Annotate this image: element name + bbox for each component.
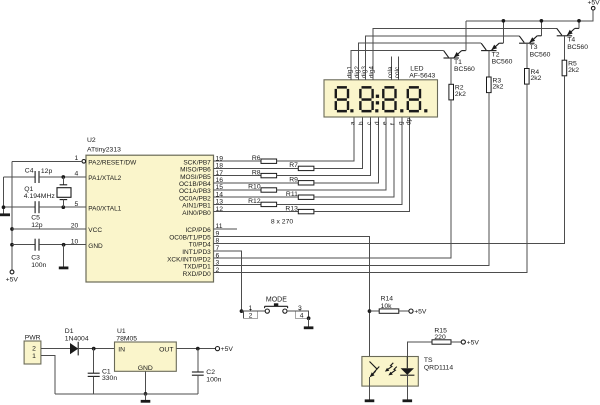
svg-text:R14: R14 — [381, 295, 394, 302]
IC U2 pin 11 number — [216, 223, 223, 230]
svg-text:TXD/PD1: TXD/PD1 — [183, 264, 211, 271]
wire PB3 to R10 — [214, 189, 262, 191]
IC U2 pin 8 number — [216, 238, 220, 245]
wire T4 base — [563, 36, 565, 60]
transistor T3 label — [530, 44, 551, 58]
display digit 1 decimal point — [350, 109, 353, 112]
svg-text:a: a — [350, 121, 357, 125]
capacitor C3 — [35, 239, 39, 251]
capacitor C4 label — [25, 168, 53, 175]
svg-text:C4: C4 — [25, 168, 34, 175]
wire D1 to U1 IN — [78, 348, 114, 350]
crystal Q1 label — [24, 186, 56, 200]
IC U2 pin 3 name TXD/PD1 — [183, 264, 211, 271]
IC U2 pin 9 name OC0B/T1/PD5 — [169, 234, 211, 241]
wire R15 to LED anode — [407, 342, 432, 357]
svg-text:OC1B/PB4: OC1B/PB4 — [179, 181, 211, 188]
svg-text:PA1/XTAL2: PA1/XTAL2 — [88, 175, 121, 182]
svg-text:+5V: +5V — [221, 346, 234, 353]
resistor R9 label — [289, 177, 298, 184]
resistor R8 label — [252, 169, 261, 176]
wire T4 emitter to +5V rail — [578, 21, 580, 29]
svg-text:1N4004: 1N4004 — [65, 335, 89, 342]
svg-text:1: 1 — [32, 353, 36, 360]
svg-text:MODE: MODE — [266, 296, 287, 303]
svg-text:dig3: dig3 — [361, 66, 368, 79]
svg-text:2k2: 2k2 — [531, 75, 542, 82]
wire XTAL2 left segment — [4, 176, 35, 178]
svg-text:+5V: +5V — [414, 309, 427, 316]
wire GND right segment — [39, 244, 86, 246]
capacitor C2 — [192, 349, 204, 394]
wire MODE left — [242, 310, 266, 312]
display label — [409, 65, 435, 79]
IC U2 pin 16 number — [216, 177, 224, 184]
svg-text:220: 220 — [434, 334, 446, 341]
svg-text:OC1A/PB3: OC1A/PB3 — [179, 188, 211, 195]
wire RESET pin1 to +5V rail — [12, 160, 82, 162]
IC U2 pin 19 name SCK/PB7 — [183, 159, 211, 166]
display colon — [376, 95, 379, 105]
IC U2 ATtiny2313 body — [86, 155, 214, 282]
display pin label d — [374, 121, 381, 125]
wire +5V left vertical — [11, 161, 13, 270]
resistor R2 — [449, 84, 454, 100]
wire T3 base — [526, 43, 528, 68]
svg-text:U2: U2 — [87, 137, 96, 144]
capacitor C5 — [35, 201, 39, 213]
wire PB2 to R11 — [214, 196, 299, 198]
svg-text:GND: GND — [88, 243, 103, 250]
display pin label dig4 — [369, 66, 376, 79]
transistor T2 label — [492, 51, 513, 65]
svg-text:VCC: VCC — [88, 227, 102, 234]
junction caps ground — [2, 205, 6, 209]
svg-text:MOSI/PB5: MOSI/PB5 — [180, 174, 211, 181]
wire phototransistor emitter to ground — [369, 377, 371, 399]
wire T2 base — [488, 51, 490, 77]
svg-text:OC0B/T1/PD5: OC0B/T1/PD5 — [169, 234, 211, 241]
wire PWR pin2 to D1 — [41, 348, 70, 350]
svg-text:4: 4 — [300, 312, 304, 319]
resistor R6 — [261, 159, 277, 163]
display pin label e — [382, 121, 389, 125]
wire PD0 to T3 base resistor R4 — [214, 84, 527, 273]
display digit 2 (8) — [359, 86, 374, 112]
svg-text:2: 2 — [32, 346, 36, 353]
display pin label f — [390, 123, 397, 125]
wire R14 right — [399, 310, 409, 312]
svg-text:RXD/PD0: RXD/PD0 — [183, 271, 212, 278]
svg-text:+5V: +5V — [6, 276, 19, 283]
IC U2 pin 7 name INT1/PD3 — [182, 249, 211, 256]
switch MODE pin 4 box — [295, 311, 308, 319]
svg-text:330n: 330n — [102, 375, 117, 382]
svg-text:R7: R7 — [289, 162, 298, 169]
resistor R12 — [261, 202, 277, 206]
junction U1 GND rail — [144, 392, 148, 396]
svg-text:XCK/INT0/PD2: XCK/INT0/PD2 — [167, 256, 211, 263]
display digit 3 decimal point — [400, 109, 403, 112]
switch MODE contacts — [265, 303, 288, 313]
svg-text:g: g — [398, 121, 405, 125]
display pin label a — [350, 121, 357, 125]
optosensor TS QRD1114 body — [362, 357, 418, 387]
junction XTAL2/crystal — [61, 175, 65, 179]
svg-text:2k2: 2k2 — [568, 67, 579, 74]
wire PB5 to R8 — [214, 175, 262, 177]
svg-text:ATtiny2313: ATtiny2313 — [87, 146, 121, 153]
transistor T1 label — [454, 59, 475, 73]
capacitor C3 label — [31, 255, 46, 269]
wire R6 to segment a — [277, 117, 354, 161]
svg-text:C3: C3 — [31, 255, 40, 262]
IC U2 reset inversion bubble — [82, 160, 86, 164]
display digit 3 (8) — [382, 86, 397, 112]
resistor R14 label — [381, 295, 394, 310]
ground IC GND — [59, 267, 69, 270]
wire MODE right — [287, 310, 309, 312]
IC U2 pin 6 number — [216, 252, 220, 259]
IC U2 pin 1 number — [75, 155, 79, 162]
svg-text:dig2: dig2 — [354, 66, 361, 79]
wire U1 GND down — [145, 371, 147, 394]
IC U2 pin 3 number — [216, 260, 220, 267]
IC U2 pin 10 name GND — [88, 243, 103, 250]
svg-text:colc: colc — [394, 66, 401, 78]
svg-text:R10: R10 — [248, 184, 261, 191]
IC U2 pin 5 number — [75, 201, 79, 208]
svg-text:ICP/PD6: ICP/PD6 — [186, 227, 212, 234]
IC U2 designator label — [87, 137, 121, 154]
svg-text:T2: T2 — [492, 51, 500, 58]
svg-text:100n: 100n — [31, 262, 46, 269]
svg-text:d: d — [374, 121, 381, 125]
wire U1 ground stub — [145, 394, 147, 400]
wire R13 to segment h — [314, 117, 410, 212]
resistor R15 label — [434, 327, 447, 341]
junction OUT/C2 — [196, 347, 200, 351]
IC U2 pin 8 name T0/PD4 — [189, 242, 211, 249]
resistor R8 — [261, 173, 277, 177]
IC U2 pin 4 number — [75, 171, 79, 178]
display pin label dig1 — [347, 66, 354, 79]
wire T2 emitter to +5V rail — [502, 21, 504, 43]
svg-text:10k: 10k — [381, 303, 393, 310]
wire GND left segment — [12, 244, 35, 246]
resistor R3 — [487, 77, 492, 93]
wire VCC — [12, 228, 86, 230]
display digit 1 (8) — [335, 86, 350, 112]
wire PB4 to R9 — [214, 182, 299, 184]
svg-text:100n: 100n — [206, 377, 221, 384]
svg-text:PA0/XTAL1: PA0/XTAL1 — [88, 205, 121, 212]
svg-text:R8: R8 — [252, 169, 261, 176]
junction +5V/C3 — [10, 243, 14, 247]
wire PB7 to R6 — [214, 160, 262, 162]
wire U1 OUT to +5V — [176, 348, 215, 350]
wire XTAL1 left segment — [4, 206, 35, 208]
wire LED cathode to ground — [406, 375, 408, 399]
display digit 2 decimal point — [375, 109, 378, 112]
wire R12 to segment g — [277, 117, 402, 204]
svg-text:78M05: 78M05 — [116, 335, 137, 342]
capacitor C5 label — [31, 214, 43, 229]
svg-text:dig4: dig4 — [369, 66, 376, 79]
+5V terminal bottom-left — [6, 270, 19, 283]
display pin label b — [358, 121, 365, 125]
resistor R6 label — [252, 155, 261, 162]
display pin label colc — [394, 66, 401, 78]
wire R7 to segment b — [314, 117, 362, 168]
svg-text:AIN1/PB1: AIN1/PB1 — [182, 203, 211, 210]
junction rail T4 — [577, 19, 581, 23]
wire R10 to segment e — [277, 117, 386, 190]
resistor R5 label — [568, 61, 579, 74]
IC U2 pin 2 number — [216, 267, 220, 274]
wire XTAL1 right segment — [39, 206, 86, 208]
junction GND — [62, 243, 66, 247]
wire R15 right — [451, 341, 461, 343]
svg-text:OC0A/PB2: OC0A/PB2 — [179, 195, 211, 202]
svg-text:Q1: Q1 — [24, 186, 33, 193]
svg-text:T3: T3 — [530, 44, 538, 51]
IC U2 pin 20 name VCC — [88, 227, 102, 234]
svg-text:C5: C5 — [31, 214, 40, 221]
resistor R10 label — [248, 184, 261, 191]
svg-text:BC560: BC560 — [530, 51, 551, 58]
optosensor infrared LED — [400, 357, 414, 376]
display digit 4 decimal point — [424, 109, 427, 112]
svg-text:f: f — [390, 123, 397, 125]
IC U2 pin 4 name PA1/XTAL2 — [88, 175, 121, 182]
svg-text:R12: R12 — [248, 198, 261, 205]
IC U2 pin 16 name OC1B/PB4 — [179, 181, 211, 188]
wire T1 emitter to +5V rail — [465, 21, 467, 51]
diode D1 1N4004 — [70, 342, 78, 356]
wire colon anode cola stub — [391, 57, 393, 80]
svg-text:AIN0/PB0: AIN0/PB0 — [182, 210, 211, 217]
svg-text:2k2: 2k2 — [455, 91, 466, 98]
svg-text:T4: T4 — [567, 37, 575, 44]
resistor R4 — [525, 69, 530, 85]
resistor R15 — [432, 340, 451, 344]
wire T3 emitter to +5V rail — [540, 21, 542, 36]
diode D1 label — [65, 328, 89, 342]
IC U2 pin 13 number — [216, 199, 224, 206]
wire PB1 to R12 — [214, 203, 262, 205]
ground U1 — [141, 400, 151, 403]
svg-text:D1: D1 — [65, 328, 74, 335]
+5V terminal R14 — [409, 309, 427, 316]
svg-text:2: 2 — [249, 312, 253, 319]
junction rail T3 — [540, 19, 544, 23]
IC U2 pin 11 name ICP/PD6 — [186, 227, 212, 234]
crystal Q1 — [57, 177, 71, 207]
ground phototransistor — [365, 399, 375, 402]
svg-text:e: e — [382, 121, 389, 125]
junction +5V/VCC — [10, 227, 14, 231]
svg-text:SCK/PB7: SCK/PB7 — [183, 159, 211, 166]
capacitor C1 — [88, 349, 100, 394]
transistor T4 BC560 — [557, 28, 579, 35]
connector PWR body — [24, 341, 41, 364]
+5V terminal top right — [587, 0, 600, 10]
wire PB0 to R13 — [214, 211, 299, 213]
IC U2 pin 11 stub — [214, 228, 238, 230]
svg-text:8 x 270: 8 x 270 — [271, 218, 294, 225]
resistor R10 — [261, 188, 277, 192]
svg-text:T0/PD4: T0/PD4 — [189, 242, 211, 249]
transistor T3 BC560 — [519, 36, 541, 43]
svg-text:12p: 12p — [41, 168, 53, 175]
junction rail T2 — [502, 19, 506, 23]
transistor T1 BC560 — [444, 51, 466, 58]
svg-text:c: c — [366, 121, 373, 125]
resistor R7 label — [289, 162, 298, 169]
wire T3 collector to dig3 — [366, 36, 520, 80]
regulator U1 pin IN — [118, 346, 125, 353]
wire T4 collector to dig4 — [373, 28, 557, 79]
wire caps to ground — [3, 177, 5, 213]
wire R14 left — [370, 310, 380, 312]
IC U2 pin 7 number — [216, 245, 220, 252]
svg-text:b: b — [358, 121, 365, 125]
display pin label g — [398, 121, 405, 125]
resistor R13 label — [285, 205, 298, 212]
resistor R11 label — [286, 191, 298, 198]
IC U2 pin 12 number — [216, 206, 224, 213]
capacitor C2 label — [206, 369, 221, 384]
svg-text:T1: T1 — [454, 59, 462, 66]
svg-text:U1: U1 — [117, 328, 126, 335]
svg-text:LED: LED — [410, 65, 423, 72]
wire T1 collector to dig1 — [351, 51, 444, 80]
svg-text:PA2/RESET/DW: PA2/RESET/DW — [88, 160, 137, 167]
svg-text:R9: R9 — [289, 177, 298, 184]
resistor R7 — [298, 166, 314, 170]
svg-text:BC560: BC560 — [454, 66, 475, 73]
IC U2 pin 20 number — [71, 223, 79, 230]
optosensor TS label — [424, 357, 453, 372]
transistor T4 label — [567, 37, 588, 51]
svg-text:+5V: +5V — [467, 340, 480, 347]
wire ground rail — [55, 393, 198, 395]
resistor R13 — [298, 209, 314, 213]
wire PD1 to T2 base resistor R3 — [214, 93, 489, 266]
junction MODE ground — [307, 316, 311, 320]
svg-text:4.194MHz: 4.194MHz — [24, 193, 56, 200]
wire MODE to ground — [308, 318, 310, 326]
svg-text:dp: dp — [405, 117, 412, 125]
resistor R9 — [298, 181, 314, 185]
svg-text:R11: R11 — [286, 191, 298, 198]
regulator U1 designator — [116, 328, 137, 342]
wire R8 to segment c — [277, 117, 371, 176]
junction PD5/R14 — [368, 309, 372, 313]
svg-text:12p: 12p — [31, 222, 43, 229]
svg-text:R6: R6 — [252, 155, 261, 162]
resistor R5 — [562, 60, 567, 76]
display LED AF-5643 body — [324, 80, 438, 117]
svg-text:IN: IN — [118, 346, 125, 353]
display pin label dig2 — [354, 66, 361, 79]
IC U2 pin 2 name RXD/PD0 — [183, 271, 212, 278]
wire PD3 to MODE switch — [214, 251, 242, 311]
IC U2 pin 1 name PA2/RESET/DW — [88, 160, 137, 167]
svg-text:QRD1114: QRD1114 — [424, 365, 453, 372]
connector PWR pin 1 — [32, 353, 36, 360]
resistor R2 label — [455, 85, 466, 98]
resistor R11 — [298, 195, 314, 199]
IC U2 pin 14 number — [216, 191, 224, 198]
ground MODE — [304, 326, 314, 329]
resistor R3 label — [493, 77, 504, 90]
optosensor phototransistor — [370, 362, 380, 378]
wire T2 collector to dig2 — [358, 43, 481, 80]
display pin label dig3 — [361, 66, 368, 79]
svg-text:BC560: BC560 — [492, 59, 513, 66]
regulator U1 78M05 body — [115, 342, 177, 371]
svg-text:GND: GND — [138, 365, 153, 372]
ground LED — [403, 399, 413, 402]
regulator U1 pin GND — [138, 365, 153, 372]
display pin label dp — [405, 117, 412, 125]
svg-text:OUT: OUT — [159, 346, 173, 353]
IC U2 pin 18 number — [216, 163, 224, 170]
display digit 4 (8) — [407, 86, 422, 112]
IC U2 pin 13 name AIN1/PB1 — [182, 203, 211, 210]
svg-text:BC560: BC560 — [567, 44, 588, 51]
IC U2 pin 15 name OC1A/PB3 — [179, 188, 211, 195]
display pin label c — [366, 121, 373, 125]
wire PWR pin1 to ground rail — [41, 356, 55, 394]
switch MODE pin 1 — [249, 305, 253, 312]
IC U2 pin 14 name OC0A/PB2 — [179, 195, 211, 202]
IC U2 pin 17 name MOSI/PB5 — [180, 174, 211, 181]
switch MODE label — [266, 296, 287, 303]
wire R11 to segment f — [314, 117, 394, 197]
IC U2 pin 19 number — [216, 155, 224, 162]
+5V terminal output — [215, 346, 233, 353]
svg-text:2k2: 2k2 — [493, 84, 504, 91]
+5V terminal R15 — [461, 340, 479, 347]
wire colon anode colc stub — [398, 57, 400, 80]
resistor R12 label — [248, 198, 261, 205]
IC U2 pin 10 number — [71, 238, 79, 245]
connector PWR label — [25, 335, 41, 342]
wire +5V rail — [466, 10, 593, 21]
ground crystal caps — [0, 213, 10, 216]
wire PD5 to sensor — [214, 236, 370, 361]
svg-text:dig1: dig1 — [347, 66, 354, 79]
wire PD2 to T1 base resistor R2 — [214, 100, 452, 258]
svg-text:C2: C2 — [206, 369, 215, 376]
optosensor light arrows — [385, 363, 397, 376]
transistor T2 BC560 — [481, 43, 503, 50]
display pin label cola — [387, 66, 394, 78]
wire GND stub down — [63, 245, 65, 267]
switch MODE pin 2 box — [244, 311, 258, 319]
junction XTAL1/crystal — [61, 205, 65, 209]
svg-text:TS: TS — [424, 357, 433, 364]
IC U2 pin 9 number — [216, 230, 220, 237]
capacitor C1 label — [102, 368, 117, 382]
wire PD4 to T4 base resistor R5 — [214, 76, 565, 244]
IC U2 pin 17 number — [216, 170, 224, 177]
resistor R4 label — [531, 69, 542, 82]
IC U2 pin 18 name MISO/PB6 — [180, 167, 211, 174]
